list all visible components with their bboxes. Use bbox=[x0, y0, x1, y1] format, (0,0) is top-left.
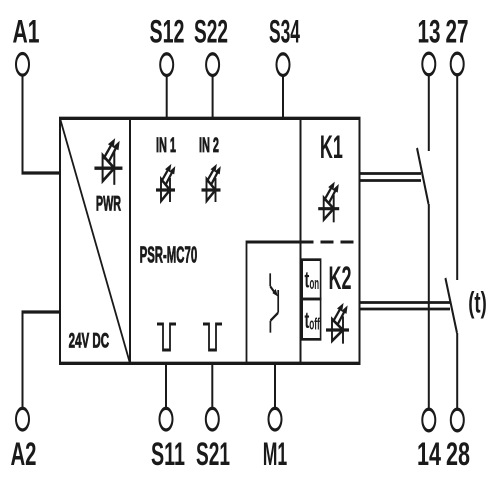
svg-text:13: 13 bbox=[418, 13, 441, 49]
wire 27 down to contact bbox=[456, 75, 458, 280]
t_on label bbox=[305, 268, 320, 293]
svg-text:24V DC: 24V DC bbox=[69, 328, 110, 352]
contact K2 lever bbox=[445, 278, 457, 333]
terminal S11 circle bbox=[160, 408, 173, 430]
svg-text:S12: S12 bbox=[150, 13, 185, 49]
contact K1 lever bbox=[417, 148, 429, 204]
terminal 28 circle bbox=[451, 409, 464, 431]
wire A2 to box bbox=[23, 312, 61, 408]
terminal S12 circle bbox=[160, 54, 173, 76]
inner output block box bbox=[247, 242, 301, 363]
terminal 14 circle bbox=[422, 409, 435, 431]
K1 mechanical link double line bbox=[360, 173, 422, 175]
t_on box bbox=[302, 260, 320, 299]
wire S21 bbox=[211, 363, 213, 408]
dashed K1/K2 divider bbox=[301, 241, 360, 243]
main device box bbox=[60, 118, 360, 363]
svg-text:14: 14 bbox=[417, 436, 441, 472]
svg-text:K2: K2 bbox=[329, 260, 352, 296]
terminal S34 circle bbox=[277, 54, 290, 76]
terminal 13 circle bbox=[422, 53, 435, 75]
LED K2 bbox=[326, 303, 349, 344]
terminal S21 circle bbox=[206, 408, 219, 430]
LED IN2 bbox=[202, 164, 221, 202]
wire S22 bbox=[212, 76, 214, 119]
svg-text:PWR: PWR bbox=[96, 191, 121, 215]
wire 13 down to contact bbox=[428, 75, 430, 151]
svg-text:S11: S11 bbox=[151, 436, 185, 472]
svg-text:(t): (t) bbox=[468, 287, 487, 320]
svg-text:M1: M1 bbox=[263, 436, 288, 472]
wire 28 from contact bbox=[456, 333, 458, 409]
svg-text:IN 2: IN 2 bbox=[199, 133, 219, 157]
svg-text:A1: A1 bbox=[12, 13, 39, 49]
svg-text:S22: S22 bbox=[194, 13, 228, 49]
LED PWR bbox=[94, 138, 122, 185]
svg-text:28: 28 bbox=[446, 436, 470, 472]
terminal S22 circle bbox=[206, 54, 219, 76]
svg-text:off: off bbox=[309, 315, 320, 333]
wire S11 bbox=[165, 363, 167, 408]
pulse symbol S11 bbox=[157, 324, 176, 350]
svg-text:S21: S21 bbox=[196, 436, 230, 472]
wire 14 from contact bbox=[428, 204, 430, 409]
K column divider bbox=[300, 118, 302, 363]
terminal M1 circle bbox=[269, 408, 282, 430]
wire A1 to box bbox=[23, 75, 61, 173]
terminal A2 circle bbox=[16, 408, 29, 430]
LED IN1 bbox=[156, 164, 175, 202]
t_off box bbox=[302, 299, 320, 339]
svg-text:on: on bbox=[310, 274, 320, 292]
pulse symbol S21 bbox=[203, 324, 222, 350]
LED K1 bbox=[318, 182, 339, 223]
t_off label bbox=[305, 308, 321, 333]
PWR section diagonal bbox=[60, 118, 130, 363]
K2 mechanical link double line bbox=[360, 302, 451, 304]
svg-text:PSR-MC70: PSR-MC70 bbox=[140, 243, 198, 268]
PWR section divider bbox=[129, 118, 131, 363]
svg-text:S34: S34 bbox=[269, 13, 300, 49]
output transistor symbol bbox=[270, 273, 278, 332]
svg-text:IN 1: IN 1 bbox=[156, 133, 176, 157]
terminal 27 circle bbox=[451, 53, 464, 75]
wire S34 bbox=[282, 76, 284, 119]
terminal A1 circle bbox=[16, 54, 29, 76]
svg-text:K1: K1 bbox=[320, 129, 343, 165]
svg-text:27: 27 bbox=[446, 13, 469, 49]
wire S12 bbox=[166, 76, 168, 119]
svg-text:A2: A2 bbox=[11, 436, 37, 472]
wire M1 bbox=[274, 363, 276, 408]
